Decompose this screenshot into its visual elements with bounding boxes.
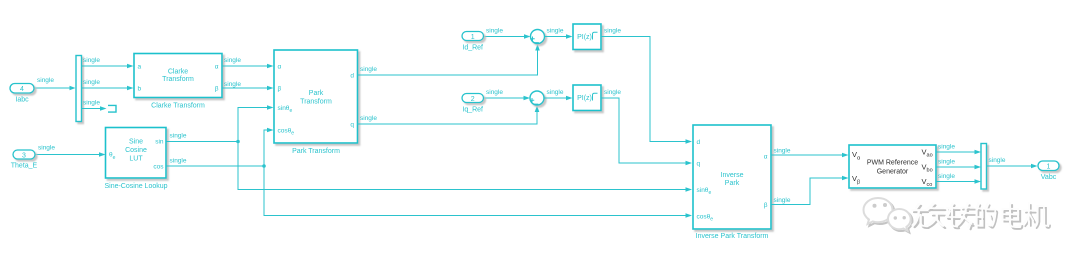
svg-text:single: single xyxy=(547,89,564,96)
svg-text:Generator: Generator xyxy=(877,169,909,176)
svg-text:1: 1 xyxy=(1047,164,1051,171)
svg-text:single: single xyxy=(938,173,955,180)
svg-text:a: a xyxy=(138,63,142,70)
svg-text:α: α xyxy=(764,153,768,160)
svg-text:LUT: LUT xyxy=(129,155,143,162)
svg-text:β: β xyxy=(278,85,282,92)
wire PWM Vbo to mux xyxy=(936,166,975,168)
svg-text:single: single xyxy=(38,145,55,152)
svg-text:Iq_Ref: Iq_Ref xyxy=(462,106,483,113)
wire Park d to sum1 xyxy=(358,49,538,76)
wire Iq_Ref to sum2 xyxy=(484,97,525,99)
wire PI2 to Inverse Park q xyxy=(601,98,686,163)
wire sum2 to PI2 xyxy=(544,97,567,99)
svg-text:2: 2 xyxy=(471,96,475,103)
svg-text:Inverse Park Transform: Inverse Park Transform xyxy=(696,233,769,240)
svg-text:Sine-Cosine Lookup: Sine-Cosine Lookup xyxy=(104,183,167,190)
svg-text:sin: sin xyxy=(155,139,164,146)
svg-text:PI(z): PI(z) xyxy=(577,34,592,41)
svg-text:single: single xyxy=(37,77,54,84)
watermark text xuan zhuan de dian ji xyxy=(912,203,1050,230)
svg-text:single: single xyxy=(83,100,100,107)
svg-text:Sine: Sine xyxy=(129,139,143,146)
wire LUT cos to Park cos and Inverse Park cos xyxy=(167,130,687,216)
outport Vabc xyxy=(1038,161,1059,171)
svg-text:Park Transform: Park Transform xyxy=(292,148,340,155)
svg-text:Iabc: Iabc xyxy=(15,97,29,104)
svg-text:Park: Park xyxy=(309,90,324,97)
svg-text:single: single xyxy=(938,159,955,166)
svg-text:4: 4 xyxy=(20,86,24,93)
svg-text:Vabc: Vabc xyxy=(1041,174,1057,181)
svg-text:d: d xyxy=(350,72,354,79)
terminator xyxy=(108,105,116,113)
wire Inverse Park alpha to PWM Valpha xyxy=(771,154,843,156)
watermark wechat logo xyxy=(864,198,913,233)
svg-text:PI(z): PI(z) xyxy=(577,95,592,102)
mux Vabc xyxy=(981,144,987,190)
block Inverse Park xyxy=(693,125,771,229)
block Clarke Transform xyxy=(134,54,222,98)
sum S2 xyxy=(530,91,544,105)
wire Clarke beta to Park beta xyxy=(222,87,268,89)
svg-text:Cosine: Cosine xyxy=(125,147,147,154)
wire PWM Vao to mux xyxy=(936,151,975,153)
inport Id_Ref xyxy=(462,32,484,41)
wire mux to Vabc xyxy=(987,165,1032,167)
svg-text:single: single xyxy=(170,158,187,165)
svg-text:single: single xyxy=(224,57,241,64)
wire demux out2 to Clarke b xyxy=(82,87,128,89)
block PI2 xyxy=(573,85,601,111)
svg-text:single: single xyxy=(774,197,791,204)
block PWM Reference Generator xyxy=(849,145,936,188)
svg-text:α: α xyxy=(215,63,219,70)
demux Iabc xyxy=(76,56,82,122)
svg-text:q: q xyxy=(697,160,701,167)
block Park Transform xyxy=(274,50,358,143)
svg-text:d: d xyxy=(697,139,701,146)
svg-text:single: single xyxy=(170,133,187,140)
svg-text:single: single xyxy=(486,28,503,35)
wire PWM Vco to mux xyxy=(936,181,975,183)
svg-text:single: single xyxy=(938,144,955,151)
svg-text:b: b xyxy=(138,85,142,92)
inport Iq_Ref xyxy=(462,94,484,103)
svg-text:Clarke Transform: Clarke Transform xyxy=(151,103,205,110)
svg-text:3: 3 xyxy=(22,152,26,159)
wire Park q to sum2 xyxy=(358,111,538,125)
wire Theta_E to LUT xyxy=(35,154,100,156)
junction sin xyxy=(236,140,240,144)
svg-text:single: single xyxy=(83,79,100,86)
svg-text:α: α xyxy=(278,63,282,70)
svg-text:Clarke: Clarke xyxy=(168,68,188,75)
junction cos xyxy=(262,164,266,168)
wire PI1 to Inverse Park d xyxy=(601,37,686,142)
svg-text:single: single xyxy=(604,28,621,35)
svg-text:Transform: Transform xyxy=(300,99,332,106)
wire sum1 to PI1 xyxy=(545,36,567,38)
svg-text:β: β xyxy=(764,202,768,209)
sum S1 xyxy=(531,30,545,44)
svg-text:Transform: Transform xyxy=(162,76,194,83)
svg-text:single: single xyxy=(604,89,621,96)
svg-text:single: single xyxy=(547,28,564,35)
svg-text:Inverse: Inverse xyxy=(721,172,744,179)
svg-text:PWM Reference: PWM Reference xyxy=(867,160,918,167)
wire Id_Ref to sum1 xyxy=(484,36,525,38)
inport Iabc xyxy=(10,84,34,94)
wire Clarke alpha to Park alpha xyxy=(222,65,268,67)
block PI1 xyxy=(573,24,601,50)
svg-text:single: single xyxy=(224,81,241,88)
svg-text:single: single xyxy=(360,115,377,122)
svg-text:cos: cos xyxy=(153,163,164,170)
wire demux out1 to Clarke a xyxy=(82,65,128,67)
svg-text:Park: Park xyxy=(725,180,740,187)
svg-text:single: single xyxy=(989,157,1006,164)
wire LUT sin to Park sin and Inverse Park sin xyxy=(167,108,687,190)
wire Inverse Park beta to PWM Vbeta xyxy=(771,178,843,205)
svg-text:Id_Ref: Id_Ref xyxy=(462,44,483,51)
svg-text:single: single xyxy=(360,66,377,73)
svg-text:β: β xyxy=(215,85,219,92)
svg-text:single: single xyxy=(83,57,100,64)
wire Iabc to demux xyxy=(35,87,70,89)
wire demux out3 to terminator xyxy=(82,108,101,110)
inport Theta_E xyxy=(13,150,35,159)
svg-text:q: q xyxy=(350,121,354,128)
svg-text:single: single xyxy=(774,148,791,155)
svg-text:single: single xyxy=(486,89,503,96)
block Sine-Cosine LUT xyxy=(106,128,167,179)
svg-text:1: 1 xyxy=(471,34,475,41)
svg-text:Theta_E: Theta_E xyxy=(11,163,38,170)
